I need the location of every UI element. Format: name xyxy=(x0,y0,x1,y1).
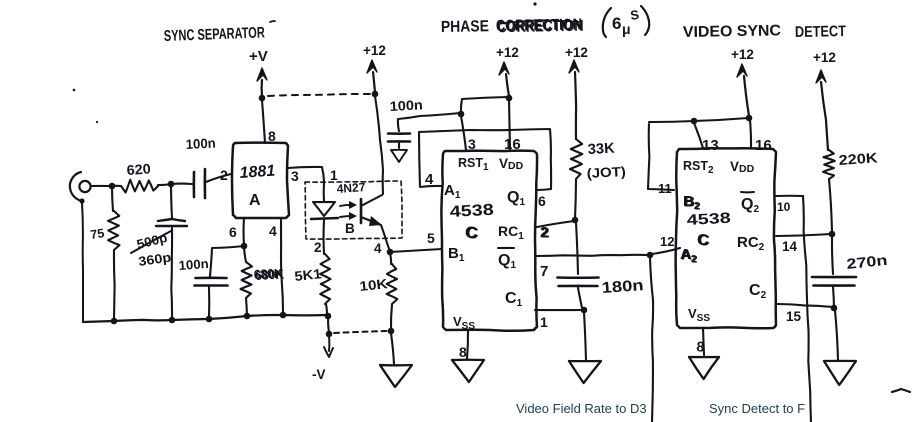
svg-text:6: 6 xyxy=(612,14,621,33)
opto arrow 2 xyxy=(340,212,357,220)
capacitor C3 100n label xyxy=(178,256,209,273)
pin 11 label (4538-2) xyxy=(658,181,672,196)
ic U4 label A2 xyxy=(680,246,698,265)
wire A1 wraparound (pin4 to Q1) xyxy=(419,129,551,190)
annotation Sync Detect to F xyxy=(709,401,805,416)
power +12 arrow (opto) xyxy=(367,60,377,92)
capacitor C5 label 180n xyxy=(601,277,644,297)
pin 3 label (1881) xyxy=(291,168,299,184)
svg-text:220K: 220K xyxy=(838,149,878,168)
wire Vss2 to ground xyxy=(703,328,704,355)
pin 15 label (4538-2) xyxy=(786,309,802,324)
wire junction to A2 pin12 xyxy=(652,248,680,254)
op-amp U1 LM1881 box xyxy=(232,143,289,218)
pin 10 label (4538-2) xyxy=(777,200,791,214)
svg-text:+12: +12 xyxy=(565,45,588,60)
svg-text:DD: DD xyxy=(739,163,755,175)
svg-text:B: B xyxy=(345,221,355,236)
resistor R3 680K xyxy=(241,247,253,315)
svg-text:15: 15 xyxy=(786,309,802,324)
resistor R1 620 xyxy=(112,180,171,193)
ic U3 label Q1bar xyxy=(498,248,516,271)
wire Vdd2 to pin16 xyxy=(750,120,751,148)
svg-text:4538: 4538 xyxy=(686,210,731,229)
wire Vdd2 top rail xyxy=(649,118,748,122)
svg-text:3: 3 xyxy=(291,168,299,184)
wire 1881 pin6 down xyxy=(243,218,246,245)
title text SYNC SEPARATOR xyxy=(164,21,275,45)
node Vdd1 junction xyxy=(506,95,513,102)
wire pin1 to C5 node xyxy=(535,309,582,311)
node R2-ground xyxy=(111,318,118,325)
pin 5 label (4538-1) xyxy=(427,230,435,246)
node RC1 junction xyxy=(572,217,579,224)
ic U3 label Q1 xyxy=(507,189,525,208)
resistor R5 10K label xyxy=(359,276,389,294)
capacitor C2 100n (series) xyxy=(171,169,231,198)
ic U3 label B1 xyxy=(448,245,465,264)
resistor R5 10K xyxy=(387,253,398,330)
wire Q2 pin10 out xyxy=(776,195,803,197)
wire C6 to node xyxy=(833,287,834,307)
ic U4 label Q2 xyxy=(741,192,759,215)
op-amp U1 label 1881 xyxy=(239,163,276,182)
svg-text:+12: +12 xyxy=(496,45,519,60)
svg-text:6: 6 xyxy=(538,193,546,209)
svg-text:4N27: 4N27 xyxy=(336,180,366,196)
svg-text:V: V xyxy=(499,156,508,171)
power +12 arrow (4538-1 Vdd) xyxy=(499,62,509,96)
svg-text:+12: +12 xyxy=(731,47,754,62)
power +12 label (4538-1 Vdd) xyxy=(496,45,519,60)
node C5 bottom junction xyxy=(581,307,588,314)
svg-text:1: 1 xyxy=(540,314,548,330)
svg-text:8: 8 xyxy=(459,344,467,360)
pin 1 label (4538-1) xyxy=(540,314,548,330)
resistor R4 5K1 xyxy=(320,254,330,314)
capacitor C6 270n xyxy=(812,277,856,286)
svg-text:(JOT): (JOT) xyxy=(586,164,626,181)
svg-text:620: 620 xyxy=(126,160,151,178)
transistor Q1 phototransistor xyxy=(361,195,390,251)
wire C5 node to ground xyxy=(584,312,586,360)
power +V label xyxy=(249,48,268,65)
capacitor C1 500p/360p xyxy=(156,186,187,319)
ic U3 label 4538 xyxy=(449,202,494,221)
pin 12 label (4538-2) xyxy=(660,234,674,249)
svg-text:3: 3 xyxy=(468,136,476,152)
capacitor C5 180n xyxy=(558,278,599,287)
ic U4 label VSS xyxy=(688,306,710,324)
ic U3 label VSS xyxy=(453,314,475,332)
svg-text:12: 12 xyxy=(660,234,674,249)
node C3-ground xyxy=(206,316,213,323)
power +12 label (220K) xyxy=(813,50,836,65)
node 10K-gnd junction xyxy=(388,328,395,335)
power +V arrow xyxy=(257,68,267,96)
pin 7 label (4538-1) xyxy=(540,263,548,280)
wire dashed +V to +12 rail xyxy=(268,94,371,96)
ground symbol (C5) xyxy=(569,361,601,383)
node +V junction xyxy=(259,95,266,102)
svg-text:4: 4 xyxy=(374,241,382,256)
wire RC2 pin14 out xyxy=(776,234,831,236)
capacitor C4 100n label xyxy=(389,97,423,114)
svg-text:10: 10 xyxy=(777,200,791,214)
wire ground bus xyxy=(83,315,327,322)
node B junction xyxy=(168,181,175,188)
pin 4 label (opto) xyxy=(374,241,382,256)
wire pin6 to C3 xyxy=(210,246,244,276)
power +12 arrow (33K) xyxy=(569,60,579,139)
wire dashed -V link xyxy=(334,331,387,333)
optocoupler U2 4N27 dashed box xyxy=(305,181,402,239)
capacitor C1 label 360p xyxy=(137,250,172,269)
capacitor C1 label 500p struck xyxy=(131,230,171,253)
ground symbol (Vss2) xyxy=(689,357,719,379)
opto arrow 1 xyxy=(340,201,357,209)
svg-text:4: 4 xyxy=(269,223,277,239)
capacitor C4 100n xyxy=(388,113,460,148)
optocoupler U2 label B xyxy=(345,221,355,236)
wire connector to node A xyxy=(91,185,111,187)
ic U3 label RC1 xyxy=(498,223,524,242)
svg-text:+12: +12 xyxy=(363,43,386,58)
pin 8 label (4538-1) xyxy=(459,344,467,360)
svg-text:5K1: 5K1 xyxy=(294,266,323,284)
node C6 bottom junction xyxy=(831,305,838,312)
svg-text:+V: +V xyxy=(249,48,268,65)
node bus end junction xyxy=(325,313,332,320)
resistor R1 620 label xyxy=(126,160,151,178)
wire C6 node to ground xyxy=(835,310,838,360)
resistor R7 220K xyxy=(823,150,835,232)
wire RC1 node down xyxy=(576,222,578,274)
op-amp U1 label A xyxy=(249,192,261,209)
svg-text:5: 5 xyxy=(427,230,435,246)
resistor R4 5K1 label xyxy=(294,266,323,284)
svg-text:100n: 100n xyxy=(185,135,216,152)
wire +V to 1881 pin 8 xyxy=(262,100,265,143)
optocoupler U2 label 4N27 xyxy=(336,180,366,196)
wire field rate drop to D3 xyxy=(650,257,653,422)
ic U3 label VDD xyxy=(499,156,524,172)
svg-text:7: 7 xyxy=(540,263,548,280)
pin 6 label (1881) xyxy=(229,224,237,240)
power +12 arrow (4538-2 Vdd) xyxy=(737,64,749,116)
power -V label xyxy=(312,367,326,382)
node A junction xyxy=(109,183,116,190)
ic U4 label C2 xyxy=(749,282,767,301)
svg-text:C: C xyxy=(466,223,478,242)
svg-text:4: 4 xyxy=(425,171,434,188)
svg-text:33K: 33K xyxy=(587,141,615,158)
svg-text:Sync Detect to F: Sync Detect to F xyxy=(709,401,805,416)
wire RST2 junction to pin13 xyxy=(694,123,703,148)
svg-text:VIDEO SYNC: VIDEO SYNC xyxy=(683,22,781,41)
pin 2 label (opto) xyxy=(314,240,322,255)
wire Q1bar to A2 xyxy=(535,255,648,256)
svg-text:A: A xyxy=(249,192,261,209)
wire C5 to node xyxy=(578,288,582,308)
node pin6 junction xyxy=(241,243,248,250)
ic U4 label B2 xyxy=(683,193,701,212)
svg-text:180n: 180n xyxy=(601,277,644,297)
capacitor C6 270n label xyxy=(846,253,888,273)
wire 1881 pin4 to ground xyxy=(281,218,283,314)
resistor R2 75 label xyxy=(89,226,105,242)
svg-text:2: 2 xyxy=(220,167,228,183)
svg-text:75: 75 xyxy=(89,226,105,242)
title text PHASE CORRECTION (6uS) xyxy=(441,2,649,37)
capacitor C2 100n label xyxy=(185,135,216,152)
ic U4 label RST2 xyxy=(683,159,714,176)
pin 1 label (opto) xyxy=(330,167,338,183)
wire 1881 pin3 to opto pin1 xyxy=(288,167,324,202)
power +12 label (opto) xyxy=(363,43,386,58)
resistor R7 220K label xyxy=(838,149,878,168)
capacitor C3 100n xyxy=(195,278,228,318)
ic U4 label 4538 xyxy=(686,210,731,229)
wire junction to Vdd1 xyxy=(461,97,508,113)
svg-text:11: 11 xyxy=(658,181,672,196)
pin 2 label (1881) xyxy=(220,167,228,183)
wire emitter to 4538 B1 xyxy=(390,249,442,252)
power +12 label (33K) xyxy=(565,45,588,60)
ic U4 label RC2 xyxy=(737,234,765,253)
ic U3 4538 box xyxy=(441,151,537,331)
wire junction down to pin3 xyxy=(461,116,466,150)
svg-text:13: 13 xyxy=(702,137,719,154)
svg-text:-V: -V xyxy=(312,367,326,382)
ic U3 label RST1 xyxy=(458,156,489,173)
wire pin2 to RC1 node xyxy=(537,221,574,227)
wire rail to pin11 xyxy=(648,124,674,190)
node R3-ground xyxy=(244,313,251,320)
node RST2 junction xyxy=(691,118,698,125)
pin 14 label (4538-2) xyxy=(782,239,798,254)
svg-text:SYNC SEPARATOR: SYNC SEPARATOR xyxy=(164,24,266,45)
node field-rate junction xyxy=(647,252,654,259)
node RST1 junction xyxy=(458,111,465,118)
resistor R2 75 xyxy=(108,188,120,320)
power -V node xyxy=(326,317,333,337)
svg-text:4538: 4538 xyxy=(449,202,494,221)
svg-text:16: 16 xyxy=(504,136,521,153)
wire RC2 node down xyxy=(832,236,833,274)
svg-text:1: 1 xyxy=(330,167,338,183)
svg-text:Video Field Rate to D3: Video Field Rate to D3 xyxy=(516,401,647,416)
ic U4 4538 box xyxy=(676,148,776,328)
resistor R6 33K note xyxy=(586,164,626,181)
svg-text:6: 6 xyxy=(229,224,237,240)
pin 13 label (4538-2) xyxy=(702,137,719,154)
svg-text:100n: 100n xyxy=(178,256,209,273)
stray dot left xyxy=(73,89,98,123)
diode D1 LED xyxy=(311,202,338,254)
input connector J1 xyxy=(70,172,91,201)
resistor R6 33K xyxy=(570,139,582,219)
power -V arrow xyxy=(324,336,333,357)
pin 8 label (4538-2) xyxy=(696,338,706,355)
pin 4 label (4538-1) xyxy=(425,171,434,188)
pin 6 label (4538-1) xyxy=(538,193,546,209)
node pin4-ground xyxy=(280,312,287,319)
svg-text:16: 16 xyxy=(755,137,772,154)
wire C2 pin15 out xyxy=(776,304,833,307)
wire Vdd1 down to pin16 xyxy=(509,100,510,150)
wire shield down to ground bus xyxy=(82,203,83,322)
node RC2 junction xyxy=(829,231,836,238)
ic U3 label C1 xyxy=(505,290,523,309)
ground symbol (C6) xyxy=(824,361,856,385)
svg-text:C: C xyxy=(698,232,710,249)
pin 16 label (4538-2) xyxy=(755,137,772,154)
power +12 arrow (220K) xyxy=(816,70,828,150)
node Vdd2 junction xyxy=(746,115,753,122)
ic U3 label C xyxy=(465,223,478,242)
svg-text:+12: +12 xyxy=(813,50,836,65)
node +12/opto junction xyxy=(372,91,379,98)
ground symbol (Vss1) xyxy=(452,360,484,382)
svg-text:8: 8 xyxy=(268,128,276,144)
svg-text:DETECT: DETECT xyxy=(795,23,847,41)
svg-text:14: 14 xyxy=(782,239,798,254)
wire +12 down to opto collector xyxy=(375,96,383,194)
svg-text:V: V xyxy=(730,159,739,174)
node connector shield xyxy=(79,198,84,203)
ground symbol (C4) xyxy=(391,150,407,162)
pin 8 label (1881) xyxy=(268,128,276,144)
svg-text:2: 2 xyxy=(314,240,322,255)
ic U4 label C xyxy=(697,232,710,249)
resistor R3 680K label xyxy=(253,265,285,283)
ground symbol (10K) xyxy=(380,333,412,387)
ic U3 label A1 xyxy=(444,182,461,201)
node opto emitter junction xyxy=(387,249,394,256)
ic U4 label VDD xyxy=(730,159,755,175)
svg-text:DD: DD xyxy=(508,160,524,172)
svg-text:μ: μ xyxy=(622,21,631,37)
pin 2 label (4538-1) xyxy=(540,224,550,241)
node C1-ground xyxy=(169,317,176,324)
wire Vss1 to ground xyxy=(467,330,468,359)
stray mark bottom right xyxy=(892,389,910,392)
annotation Video Field Rate to D3 xyxy=(516,401,647,416)
svg-text:1881: 1881 xyxy=(239,163,276,182)
pin 3 label (4538-1) xyxy=(468,136,476,152)
pin 4 label (1881) xyxy=(269,223,277,239)
pin 16 label (4538-1) xyxy=(504,136,521,153)
wire sync detect drop to F xyxy=(803,196,811,422)
svg-text:10K: 10K xyxy=(359,276,389,294)
svg-text:PHASE: PHASE xyxy=(441,18,490,36)
title text VIDEO SYNC DETECT xyxy=(683,22,847,41)
resistor R6 33K label xyxy=(587,141,615,158)
power +12 label (4538-2 Vdd) xyxy=(731,47,754,62)
svg-text:100n: 100n xyxy=(389,97,423,114)
